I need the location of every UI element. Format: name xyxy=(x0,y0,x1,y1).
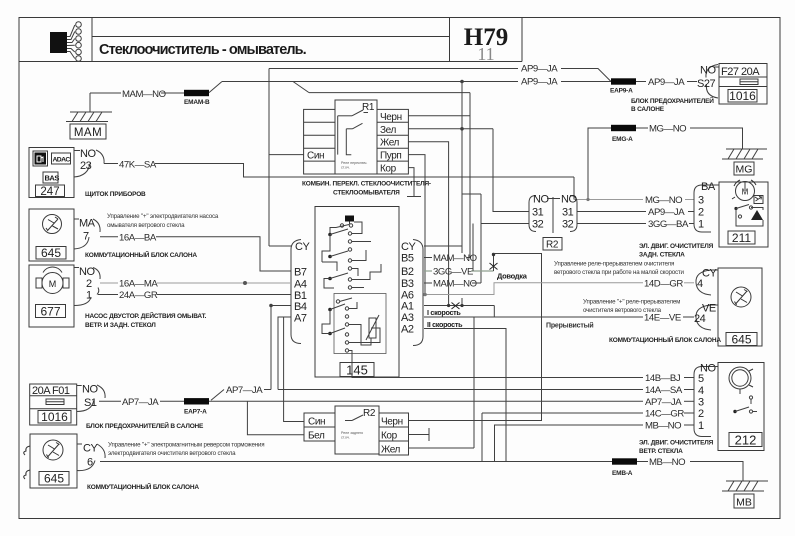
svg-text:AP9—JA: AP9—JA xyxy=(648,207,685,218)
B3 wire MAM-NO xyxy=(424,282,432,284)
svg-text:2: 2 xyxy=(698,408,704,420)
wire 14A-SA xyxy=(278,389,643,391)
bottom EMB row xyxy=(100,461,612,463)
svg-text:3GG—BA: 3GG—BA xyxy=(648,219,689,230)
svg-text:ст.оч.: ст.оч. xyxy=(341,166,350,170)
svg-text:ВЕТР. И ЗАДН. СТЕКОЛ: ВЕТР. И ЗАДН. СТЕКОЛ xyxy=(85,322,156,329)
wire AP9-JA upper xyxy=(269,68,518,70)
svg-text:7: 7 xyxy=(83,231,89,243)
instrument cluster 247 xyxy=(29,148,74,199)
pin S27 bracket xyxy=(706,65,718,99)
3GG riser to 211 row xyxy=(472,224,474,272)
B4 wire from AP7 branch xyxy=(271,306,291,390)
connector block R2 (31/32) xyxy=(529,194,577,251)
pins 2,1 bracket xyxy=(74,268,100,306)
145 left pin bracket xyxy=(291,240,301,344)
wire AP7-JA from fuse xyxy=(99,400,121,402)
wire MAM-NO xyxy=(90,92,121,94)
svg-text:BAS: BAS xyxy=(45,174,60,183)
connector EAP7-A xyxy=(184,398,209,404)
svg-text:ЩИТОК ПРИБОРОВ: ЩИТОК ПРИБОРОВ xyxy=(85,191,146,198)
svg-text:КОММУТАЦИОННЫЙ БЛОК САЛОНА: КОММУТАЦИОННЫЙ БЛОК САЛОНА xyxy=(85,250,197,259)
title strip xyxy=(92,36,450,38)
svg-text:MB: MB xyxy=(736,497,752,509)
B2 wire 3GG-VE xyxy=(424,270,432,272)
svg-text:Кор: Кор xyxy=(381,431,398,442)
svg-text:I скорость: I скорость xyxy=(427,308,461,317)
svg-text:NO: NO xyxy=(533,194,549,206)
wire R1 Пурп right xyxy=(408,155,425,295)
wire R1 Зел right xyxy=(408,128,493,130)
svg-text:НАСОС ДВУСТОР. ДЕЙСТВИЯ ОМЫВАТ: НАСОС ДВУСТОР. ДЕЙСТВИЯ ОМЫВАТ. xyxy=(85,311,207,320)
svg-text:ВЕТР. СТЕКЛА: ВЕТР. СТЕКЛА xyxy=(639,448,683,455)
svg-text:EAP7-A: EAP7-A xyxy=(184,409,207,416)
svg-text:Жел: Жел xyxy=(381,445,401,456)
645K pin CY/4 bracket xyxy=(696,270,718,295)
svg-text:32: 32 xyxy=(562,219,574,231)
svg-text:677: 677 xyxy=(40,305,60,319)
wire MG-NO (gray) to 211 pin3 xyxy=(574,199,643,201)
A4 B1 ticks xyxy=(283,282,291,284)
vertical MAM branch to B5 xyxy=(469,93,471,258)
svg-text:Син: Син xyxy=(308,417,325,428)
svg-text:Управление "+" электродвигател: Управление "+" электродвигателя насоса xyxy=(107,213,219,220)
svg-text:1016: 1016 xyxy=(41,410,68,424)
svg-text:3: 3 xyxy=(698,195,704,207)
pin 23 bracket xyxy=(74,150,104,177)
svg-text:КОММУТАЦИОННЫЙ БЛОК САЛОНА: КОММУТАЦИОННЫЙ БЛОК САЛОНА xyxy=(87,482,199,491)
svg-text:AP7—JA: AP7—JA xyxy=(226,385,263,396)
145 right pin bracket xyxy=(413,240,423,346)
fuse box F27 20A (1016) xyxy=(719,64,767,105)
svg-text:31: 31 xyxy=(532,207,544,219)
svg-text:Управление реле-прерывателем о: Управление реле-прерывателем очистителя xyxy=(554,261,674,268)
svg-text:MG—NO: MG—NO xyxy=(645,195,682,206)
svg-text:ЭЛ. ДВИГ. ОЧИСТИТЕЛЯ: ЭЛ. ДВИГ. ОЧИСТИТЕЛЯ xyxy=(639,440,714,447)
svg-text:MAM—NO: MAM—NO xyxy=(433,253,477,264)
svg-text:CY: CY xyxy=(83,443,98,455)
svg-text:Пурп: Пурп xyxy=(380,151,401,162)
A7 wire down to 14A-SA xyxy=(278,317,291,390)
A1 wire with park contact xyxy=(424,305,494,307)
svg-text:NO: NO xyxy=(80,148,96,160)
svg-text:145: 145 xyxy=(346,363,368,378)
B5 wire MAM-NO xyxy=(424,257,432,259)
vertical Зел to pin31 xyxy=(493,129,529,212)
svg-text:B4: B4 xyxy=(294,301,307,313)
relay box R2 (bottom) xyxy=(304,406,409,456)
branch AP7-JA up to B4 xyxy=(211,390,224,401)
svg-text:NO: NO xyxy=(82,384,98,396)
svg-text:14D—GR: 14D—GR xyxy=(644,279,683,290)
svg-text:СТЕКЛООМЫВАТЕЛЯ: СТЕКЛООМЫВАТЕЛЯ xyxy=(333,190,400,197)
svg-text:CY: CY xyxy=(295,241,310,253)
ground MG xyxy=(722,149,767,176)
svg-text:B3: B3 xyxy=(401,278,414,290)
svg-text:14C—GR: 14C—GR xyxy=(645,409,684,420)
ground MB xyxy=(722,481,768,509)
wire 16A-BA xyxy=(100,236,118,238)
svg-text:24: 24 xyxy=(694,313,706,325)
svg-text:КОММУТАЦИОННЫЙ БЛОК САЛОНА: КОММУТАЦИОННЫЙ БЛОК САЛОНА xyxy=(609,335,721,344)
svg-text:Реле переключ.: Реле переключ. xyxy=(341,161,367,165)
connector EMB-A xyxy=(612,458,637,464)
svg-text:11: 11 xyxy=(477,44,494,64)
svg-text:MAM—NO: MAM—NO xyxy=(433,279,477,290)
svg-text:II скорость: II скорость xyxy=(427,320,463,329)
svg-text:A2: A2 xyxy=(401,324,414,336)
schema number box H79 xyxy=(449,18,451,62)
branch down to R1 xyxy=(293,82,309,93)
wire Жел right to riser xyxy=(409,447,475,449)
svg-text:A3: A3 xyxy=(401,312,414,324)
vertical AP9 branch to CY row xyxy=(461,82,463,254)
svg-text:M: M xyxy=(49,279,57,289)
washer pump 677 xyxy=(29,265,74,327)
wire 14C-GR xyxy=(482,412,542,414)
svg-text:645: 645 xyxy=(44,472,64,486)
pin S1 bracket xyxy=(77,385,105,412)
fuse box 20A F01 (1016) xyxy=(30,384,77,425)
svg-text:AP9—JA: AP9—JA xyxy=(521,64,558,75)
svg-text:211: 211 xyxy=(732,231,751,245)
ground MAM xyxy=(66,112,112,139)
wire to AP9 level xyxy=(209,82,222,93)
svg-text:AP9—JA: AP9—JA xyxy=(648,77,685,88)
wire Кор stub with terminator xyxy=(409,434,430,436)
wire 16A-MA (gray) xyxy=(100,282,118,284)
wire Бел left from AP7 row xyxy=(247,401,304,435)
wire left of EMG-A down xyxy=(588,128,611,200)
wiper switch 145 box xyxy=(315,207,399,378)
svg-text:A1: A1 xyxy=(401,301,414,313)
ground MAM riser wire xyxy=(89,93,91,112)
A3 wire 14E-VE xyxy=(424,316,643,318)
pin 7 bracket xyxy=(74,219,100,249)
windscreen wiper motor 212 xyxy=(718,363,764,451)
junction dot xyxy=(243,281,247,285)
svg-text:212: 212 xyxy=(735,433,757,448)
svg-text:S27: S27 xyxy=(697,78,715,90)
switch unit 645 (bottom) xyxy=(24,434,77,488)
svg-text:В САЛОНЕ: В САЛОНЕ xyxy=(631,106,665,113)
connector EMAM-B xyxy=(184,90,209,96)
svg-text:R1: R1 xyxy=(362,102,375,113)
svg-text:Кор: Кор xyxy=(380,164,397,175)
svg-text:1: 1 xyxy=(86,290,92,302)
rear wiper motor 211 xyxy=(719,180,768,247)
combi switch connector R1 xyxy=(304,100,409,175)
connector EMG-A xyxy=(611,125,636,131)
svg-text:MG: MG xyxy=(736,164,753,176)
svg-text:БЛОК ПРЕДОХРАНИТЕЛЕЙ: БЛОК ПРЕДОХРАНИТЕЛЕЙ xyxy=(631,96,714,105)
svg-text:2: 2 xyxy=(698,207,704,219)
svg-text:БЛОК ПРЕДОХРАНИТЕЛЕЙ В САЛОНЕ: БЛОК ПРЕДОХРАНИТЕЛЕЙ В САЛОНЕ xyxy=(86,421,204,430)
svg-text:MB—NO: MB—NO xyxy=(649,457,685,468)
svg-text:EMG-A: EMG-A xyxy=(612,136,633,143)
logo box divider xyxy=(91,18,93,62)
svg-text:AP9—JA: AP9—JA xyxy=(521,77,558,88)
svg-text:S1: S1 xyxy=(84,397,97,409)
wire Син left from AP7 riser xyxy=(284,317,304,422)
wire R1 Жел right xyxy=(408,142,448,306)
wire pin32 left xyxy=(481,223,529,225)
svg-text:16A—BA: 16A—BA xyxy=(119,233,157,244)
svg-text:1: 1 xyxy=(698,219,704,231)
B7 wire from 16A-BA xyxy=(260,270,283,272)
212 pin bracket xyxy=(694,367,711,437)
svg-text:ADAC: ADAC xyxy=(53,157,71,164)
CY left wire xyxy=(269,245,283,247)
svg-text:ЭЛ. ДВИГ. ОЧИСТИТЕЛЯ: ЭЛ. ДВИГ. ОЧИСТИТЕЛЯ xyxy=(639,243,714,250)
wire dot row to R2 Черн xyxy=(409,254,542,421)
svg-text:Жел: Жел xyxy=(380,138,400,149)
svg-text:47K—SA: 47K—SA xyxy=(119,160,157,171)
A2 wire xyxy=(424,329,506,462)
svg-text:B7: B7 xyxy=(294,267,307,279)
wire R1 Cин left to AP9 riser xyxy=(269,154,304,156)
svg-text:EAP9-A: EAP9-A xyxy=(610,88,633,95)
645K pin VE/24 bracket xyxy=(696,305,718,330)
svg-text:4: 4 xyxy=(697,278,703,290)
svg-text:R2: R2 xyxy=(546,240,559,251)
riser 14C to R2 area xyxy=(481,413,483,462)
svg-text:5: 5 xyxy=(698,373,704,385)
svg-text:B2: B2 xyxy=(401,266,414,278)
svg-text:Син: Син xyxy=(307,151,324,162)
svg-text:MB—NO: MB—NO xyxy=(645,421,681,432)
svg-text:6: 6 xyxy=(87,457,93,469)
svg-text:3: 3 xyxy=(698,397,704,409)
svg-text:Управление "+" электромагнитны: Управление "+" электромагнитным реверсом… xyxy=(108,442,264,449)
svg-text:омывателя ветрового стекла: омывателя ветрового стекла xyxy=(107,222,185,229)
svg-text:NO: NO xyxy=(561,194,577,206)
Доводка cut symbol xyxy=(490,253,528,281)
R1 internal contacts xyxy=(338,115,352,117)
pin 6 bracket xyxy=(77,444,105,471)
svg-text:NO: NO xyxy=(79,266,95,278)
jog to pin32 vertical xyxy=(462,193,481,195)
svg-text:EMB-A: EMB-A xyxy=(612,470,633,477)
logo: black connector with fan-out wires xyxy=(50,22,81,62)
svg-text:3GG—VE: 3GG—VE xyxy=(433,267,473,278)
riser AP9 upper to CY xyxy=(268,69,270,247)
svg-text:23: 23 xyxy=(80,160,92,172)
A3 riser to R2 Жел xyxy=(473,317,475,448)
junction dot on AP9 xyxy=(460,80,464,84)
svg-text:ветрового стекла при работе на: ветрового стекла при работе на малой ско… xyxy=(554,269,684,276)
svg-text:Зел: Зел xyxy=(380,125,396,136)
svg-text:AP7—JA: AP7—JA xyxy=(645,397,682,408)
svg-text:EMAM-B: EMAM-B xyxy=(184,99,210,106)
wire 47K-SA xyxy=(104,163,118,165)
svg-text:14A—SA: 14A—SA xyxy=(645,385,683,396)
svg-text:AP7—JA: AP7—JA xyxy=(122,397,159,408)
svg-text:Прерывистый: Прерывистый xyxy=(546,322,593,330)
svg-text:A7: A7 xyxy=(294,313,307,325)
svg-text:247: 247 xyxy=(40,186,59,198)
svg-text:1016: 1016 xyxy=(729,89,756,103)
145 internals xyxy=(322,216,386,363)
svg-text:NO: NO xyxy=(700,65,716,77)
svg-text:2: 2 xyxy=(86,278,92,290)
svg-text:16A—MA: 16A—MA xyxy=(119,279,158,290)
wire 24A-GR xyxy=(98,294,118,296)
wire AP9-JA to fuse xyxy=(636,81,646,83)
svg-text:645: 645 xyxy=(731,333,751,347)
svg-text:MAM—NO: MAM—NO xyxy=(122,89,166,100)
svg-text:645: 645 xyxy=(41,246,61,260)
svg-text:ЗАДН. СТЕКЛА: ЗАДН. СТЕКЛА xyxy=(639,252,685,259)
wire R1 Черн right xyxy=(408,115,470,117)
svg-text:Доводка: Доводка xyxy=(497,272,528,281)
svg-text:очистителя ветрового стекла: очистителя ветрового стекла xyxy=(583,307,662,314)
svg-text:MG—NO: MG—NO xyxy=(649,124,686,135)
svg-text:MA: MA xyxy=(79,218,96,230)
wire 14B-BJ xyxy=(352,363,643,378)
211 pin bracket xyxy=(694,185,711,232)
interior switch unit 645 (K) xyxy=(718,268,762,347)
connector EAP9-A xyxy=(611,78,636,84)
svg-text:Черн: Черн xyxy=(381,417,403,428)
svg-text:14B—BJ: 14B—BJ xyxy=(645,373,681,384)
svg-text:BA: BA xyxy=(701,181,716,193)
svg-text:CY: CY xyxy=(702,268,717,280)
svg-text:1: 1 xyxy=(698,420,704,432)
wires R2 right to 211 xyxy=(577,211,646,213)
svg-text:Стеклоочиститель - омыватель.: Стеклоочиститель - омыватель. xyxy=(99,42,307,58)
svg-text:КОМБИН. ПЕРЕКЛ. СТЕКЛООЧИСТИТЕ: КОМБИН. ПЕРЕКЛ. СТЕКЛООЧИСТИТЕЛЯ- xyxy=(302,181,431,188)
svg-text:электродвигателя очистителя ве: электродвигателя очистителя ветрового ст… xyxy=(108,450,236,457)
svg-text:4: 4 xyxy=(698,385,704,397)
svg-text:Реле заднего: Реле заднего xyxy=(341,431,363,435)
svg-text:14E—VE: 14E—VE xyxy=(644,313,681,324)
svg-text:Бел: Бел xyxy=(308,431,325,442)
A6 wire to 14D-GR (gray) xyxy=(424,283,643,295)
svg-text:A4: A4 xyxy=(294,279,307,291)
svg-text:Управление "+" реле-прерывател: Управление "+" реле-прерывателем xyxy=(583,299,680,306)
wire R1 Кор stub with terminator xyxy=(408,168,414,197)
svg-text:24A—GR: 24A—GR xyxy=(119,290,158,301)
svg-text:B5: B5 xyxy=(401,253,414,265)
wire MB-NO pin1 xyxy=(495,425,644,462)
switch unit 645 (top) xyxy=(29,209,74,261)
svg-text:ст.оч.: ст.оч. xyxy=(341,436,350,440)
svg-text:F27 20A: F27 20A xyxy=(721,66,760,78)
svg-text:32: 32 xyxy=(532,219,544,231)
svg-text:CY: CY xyxy=(401,241,416,253)
svg-text:R2: R2 xyxy=(363,408,376,419)
svg-text:Черн: Черн xyxy=(380,112,402,123)
wire AP7-JA row xyxy=(228,400,643,402)
svg-text:MAM: MAM xyxy=(74,127,102,139)
svg-text:31: 31 xyxy=(562,207,574,219)
wire AP9-JA lower xyxy=(222,81,518,83)
wire MG-NO from connector to ground xyxy=(636,127,648,129)
title band bottom line xyxy=(19,61,522,63)
